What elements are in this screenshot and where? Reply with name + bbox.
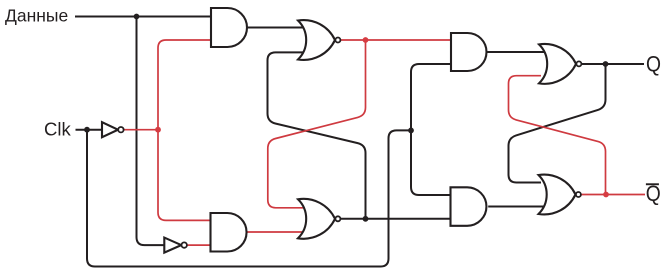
inverter NOT1 (clock inverter) [102, 122, 118, 137]
wire NOR2 output to AND4 input 2 [341, 218, 451, 220]
wire inverted clock down to AND2 input 1 [158, 130, 211, 221]
and-gate AND2 (data-bar AND clk-bar) [211, 213, 247, 252]
nor-gate NOR4 (slave latch bottom, output Q-bar) [539, 175, 576, 215]
wire clock node down to AND4 input 1 [411, 130, 451, 195]
wire NOR4 output to Q-bar [581, 194, 645, 196]
svg-text:Q: Q [646, 51, 661, 76]
wire NOT2 output to AND2 input 2 [187, 244, 210, 246]
and-gate AND3 (slave gate top) [451, 33, 487, 71]
wire NOR2 output feedback to NOR1 input 2 (cross-coupling) [268, 52, 366, 218]
wire NOT1 output (inverted clock) to junction [124, 129, 158, 131]
wire Clk input to NOT1 [76, 129, 103, 131]
wire AND2 output to NOR2 input 2 [247, 231, 307, 233]
node junction Q output [603, 61, 609, 67]
node junction on Данные line [134, 14, 140, 20]
wire NOR3 output to Q [582, 63, 644, 65]
node junction on Clk line [84, 127, 90, 133]
and-gate AND4 (slave gate bottom) [451, 187, 487, 226]
nor-gate NOR3 (slave latch top, output Q) [539, 44, 576, 84]
node junction inverted clock [155, 127, 161, 133]
wire NOR1 output to AND3 input 1 [341, 39, 451, 41]
wire Clk branch: bottom rail to clock node [87, 130, 411, 267]
inverter NOT2 (data inverter) [164, 238, 181, 253]
wire AND1 output to NOR1 input 1 [247, 27, 306, 29]
node junction NOR2 output [363, 216, 369, 222]
wire inverted clock up to AND1 input 2 [158, 40, 211, 130]
wire Q-bar feedback to NOR3 input 2 (cross-coupling) [509, 76, 606, 195]
nor-gate NOR1 (master latch top) [298, 20, 335, 60]
wire NOR1 output feedback to NOR2 input 1 (cross-coupling) [268, 40, 366, 208]
node junction clock distribution [408, 127, 414, 133]
svg-text:Данные: Данные [5, 6, 68, 26]
and-gate AND1 (data AND clk-bar) [211, 8, 247, 47]
wire clock node up to AND3 input 2 [411, 64, 451, 130]
svg-text:Clk: Clk [44, 119, 71, 140]
wire Данные branch down to NOT2 input [137, 17, 165, 246]
wire AND4 output to NOR4 input 2 [488, 206, 545, 208]
wire AND3 output to NOR3 input 1 [488, 51, 546, 53]
node junction Q-bar output [603, 192, 609, 198]
node junction NOR1 output [363, 37, 369, 43]
nor-gate NOR2 (master latch bottom) [298, 199, 335, 239]
wire Q feedback to NOR4 input 1 (cross-coupling) [509, 64, 606, 183]
wire Данные input to AND1 [75, 16, 211, 18]
